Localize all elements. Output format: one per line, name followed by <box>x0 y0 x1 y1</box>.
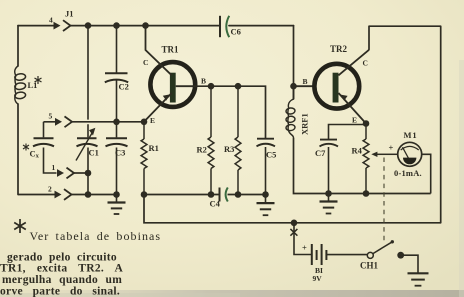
wire vertical C6 to TR2 base node <box>293 26 295 99</box>
dashed mechanical link R4 to CH1 <box>383 158 385 244</box>
ground G3 <box>320 194 338 214</box>
junction dot bus C5 ground <box>262 191 269 198</box>
svg-text:J1: J1 <box>65 9 74 19</box>
junction dot 5-line C2/C3 <box>113 119 120 126</box>
svg-text:mergulha quando um: mergulha quando um <box>2 274 122 286</box>
svg-text:0-1mA.: 0-1mA. <box>394 168 422 178</box>
capacitor C1 variable <box>76 129 98 161</box>
svg-text:E: E <box>352 116 357 125</box>
capacitor C7 <box>320 140 339 194</box>
svg-text:B: B <box>201 77 206 86</box>
asterisk by Cx <box>23 144 29 151</box>
svg-text:C: C <box>143 58 148 67</box>
junction dot ground bus R4 <box>363 190 370 197</box>
wire C1 bottom lead <box>87 148 89 195</box>
svg-text:E: E <box>150 116 155 125</box>
svg-text:CH1: CH1 <box>360 261 379 271</box>
junction dot bus R3 <box>235 191 242 198</box>
junction dot ground bus C7 <box>325 190 332 197</box>
X mark on battery wire <box>290 229 297 236</box>
svg-text:9V: 9V <box>313 274 323 283</box>
wire C1 top lead (crosses 5-wire without junction) <box>87 26 89 138</box>
connector 5 arrow <box>55 116 72 127</box>
wire meter to ground bus <box>422 154 431 193</box>
junction dot bus R2 <box>208 191 215 198</box>
svg-text:TR1: TR1 <box>162 45 180 55</box>
battery B1 <box>312 244 327 265</box>
inductor XRF1 <box>286 99 296 138</box>
wire emitter node to C7 <box>329 125 367 140</box>
svg-text:C1: C1 <box>89 148 99 158</box>
junction dot TR2 base node <box>290 83 297 90</box>
meter M1 <box>398 142 422 166</box>
junction dot top C1 <box>85 22 92 29</box>
svg-text:R2: R2 <box>197 145 207 155</box>
junction dot TR1 emitter node <box>141 119 148 126</box>
svg-text:Ver tabela de bobinas: Ver tabela de bobinas <box>30 229 162 243</box>
wire 1-line to C1 <box>74 172 88 174</box>
wire top right segment and right rail <box>369 26 441 223</box>
wire contact to ground <box>401 255 418 273</box>
svg-text:2: 2 <box>48 185 52 194</box>
svg-text:4: 4 <box>49 16 53 25</box>
resistor R1 <box>141 122 147 195</box>
junction dot switch right contact <box>397 252 404 259</box>
svg-text:M1: M1 <box>404 130 418 140</box>
svg-text:TR1, excita TR2. A: TR1, excita TR2. A <box>0 263 124 275</box>
svg-text:1: 1 <box>52 163 56 172</box>
capacitor C4 <box>220 188 228 202</box>
svg-text:C6: C6 <box>231 27 241 37</box>
connector 1 arrow <box>57 168 74 179</box>
switch CH1 <box>367 240 394 258</box>
transistor TR2 <box>314 50 369 124</box>
wire battery to switch <box>326 254 367 256</box>
resistor R4 potentiometer <box>363 124 369 194</box>
capacitor C3 <box>106 122 128 195</box>
resistor R2 <box>208 86 214 194</box>
svg-text:B: B <box>303 77 308 86</box>
wire left rail <box>17 26 19 195</box>
wire top rail left of C6 <box>18 25 219 27</box>
svg-text:R1: R1 <box>149 143 159 153</box>
capacitor Cx <box>33 122 57 173</box>
junction dot battery tap <box>291 220 298 227</box>
capacitor C2 <box>105 26 128 122</box>
svg-text:C4: C4 <box>210 199 221 209</box>
svg-text:R4: R4 <box>352 146 363 156</box>
junction dot base rail R3 <box>235 83 242 90</box>
svg-text:+: + <box>302 243 307 253</box>
resistor R3 <box>235 86 241 194</box>
svg-text:C7: C7 <box>315 148 326 158</box>
connector 2 arrow <box>55 189 72 200</box>
svg-text:orve parte do sinal.: orve parte do sinal. <box>0 285 120 297</box>
wire top rail right of C6 <box>229 25 294 27</box>
wire lower bus y222.8 <box>144 195 441 223</box>
svg-text:C5: C5 <box>266 150 276 160</box>
junction dot top C2 <box>113 22 120 29</box>
ground G2 <box>257 195 275 216</box>
svg-text:gerado pelo circuito: gerado pelo circuito <box>7 252 117 264</box>
svg-text:5: 5 <box>49 112 53 121</box>
wire battery branch <box>294 223 311 255</box>
transistor TR1 <box>144 26 197 122</box>
connector 4 arrow <box>54 20 71 31</box>
svg-text:+: + <box>389 143 394 153</box>
capacitor C6 <box>220 16 229 37</box>
svg-text:XRF1: XRF1 <box>300 113 310 135</box>
junction dot 2-line C3 ground <box>113 191 120 198</box>
svg-text:R3: R3 <box>224 144 234 154</box>
asterisk by L1 <box>35 76 42 84</box>
junction dot TR2 emitter node <box>363 120 370 127</box>
wire 5-line <box>44 121 145 123</box>
junction dot 1-line <box>85 170 92 177</box>
wiper arrow of R4 <box>371 152 385 157</box>
wire XRF1 to ground bus <box>294 86 431 193</box>
big asterisk footnote <box>14 219 26 233</box>
svg-text:TR2: TR2 <box>330 44 348 54</box>
ground G4 <box>408 273 429 285</box>
junction dot bus R1 <box>141 191 148 198</box>
junction dot base rail R2 <box>208 83 215 90</box>
junction dot 2-line C1 <box>85 191 92 198</box>
ground G1 <box>108 195 126 215</box>
wire 2-line <box>18 194 117 196</box>
svg-text:C2: C2 <box>119 82 129 92</box>
capacitor C5 <box>257 139 276 195</box>
svg-text:C: C <box>363 59 368 68</box>
wire TR2 base lead <box>294 85 313 87</box>
wire wiper to meter <box>386 153 398 155</box>
wire TR1 base rail <box>197 86 266 138</box>
svg-text:C3: C3 <box>115 148 125 158</box>
junction dot top TR1 collector <box>142 22 149 29</box>
inductor L1 <box>14 66 25 104</box>
wire mid bus y194 <box>144 194 266 196</box>
